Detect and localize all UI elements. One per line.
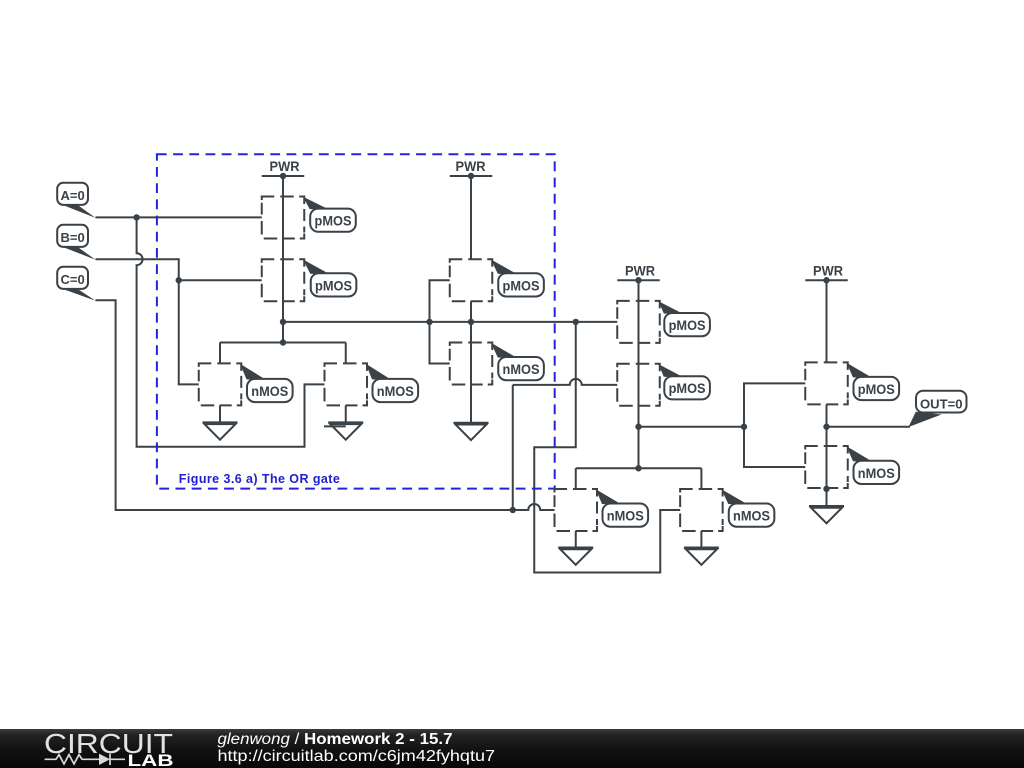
svg-text:pMOS: pMOS bbox=[315, 213, 352, 229]
svg-text:nMOS: nMOS bbox=[251, 383, 288, 399]
svg-text:pMOS: pMOS bbox=[315, 277, 352, 293]
svg-text:A=0: A=0 bbox=[60, 188, 84, 203]
svg-text:C=0: C=0 bbox=[60, 272, 84, 287]
svg-text:OUT=0: OUT=0 bbox=[920, 397, 963, 412]
svg-text:PWR: PWR bbox=[813, 262, 843, 278]
svg-text:pMOS: pMOS bbox=[669, 317, 706, 333]
svg-text:PWR: PWR bbox=[625, 262, 655, 278]
svg-text:PWR: PWR bbox=[456, 158, 486, 174]
svg-text:nMOS: nMOS bbox=[733, 508, 770, 524]
svg-text:http://circuitlab.com/c6jm42fy: http://circuitlab.com/c6jm42fyhqtu7 bbox=[218, 748, 496, 765]
svg-text:glenwong / Homework 2 - 15.7: glenwong / Homework 2 - 15.7 bbox=[218, 731, 453, 748]
svg-text:PWR: PWR bbox=[270, 158, 300, 174]
svg-text:pMOS: pMOS bbox=[858, 381, 895, 397]
svg-text:pMOS: pMOS bbox=[503, 277, 540, 293]
svg-text:LAB: LAB bbox=[128, 752, 174, 768]
svg-text:nMOS: nMOS bbox=[858, 465, 895, 481]
svg-text:nMOS: nMOS bbox=[503, 361, 540, 377]
svg-text:pMOS: pMOS bbox=[669, 380, 706, 396]
svg-text:Figure 3.6 a) The OR gate: Figure 3.6 a) The OR gate bbox=[179, 472, 340, 486]
svg-text:B=0: B=0 bbox=[60, 230, 84, 245]
svg-text:nMOS: nMOS bbox=[377, 383, 414, 399]
svg-text:nMOS: nMOS bbox=[607, 508, 644, 524]
